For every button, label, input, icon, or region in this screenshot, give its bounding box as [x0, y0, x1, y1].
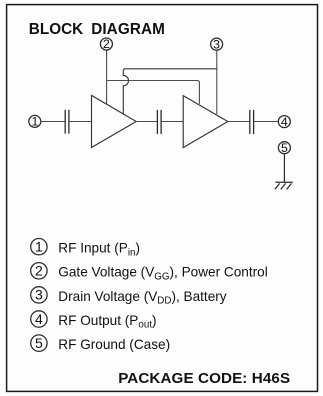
node 2 (gate voltage terminal) — [100, 38, 112, 50]
legend marker 3 — [31, 287, 47, 303]
svg-text:5: 5 — [281, 141, 288, 155]
wire node3 down to A2 drain — [216, 50, 218, 114]
capacitor C2 (interstage coupling) — [157, 110, 161, 134]
op-amp A2 (second stage amplifier) — [183, 96, 228, 148]
svg-text:RF Input (Pin): RF Input (Pin) — [58, 241, 140, 259]
svg-text:2: 2 — [103, 37, 110, 51]
legend marker 2 — [31, 263, 47, 279]
legend marker 1 — [31, 239, 47, 255]
svg-text:3: 3 — [213, 37, 220, 51]
capacitor C3 (output DC block) — [250, 110, 254, 134]
wire C1 to amp A1 — [69, 121, 92, 123]
svg-text:2: 2 — [35, 263, 43, 279]
wire node2 down to A1 gate — [106, 50, 108, 104]
svg-text:BLOCKDIAGRAM: BLOCKDIAGRAM — [29, 21, 165, 38]
svg-text:4: 4 — [35, 311, 43, 327]
legend marker 4 — [31, 311, 47, 327]
wire A2 to C3 — [228, 121, 250, 123]
svg-text:3: 3 — [35, 287, 43, 303]
svg-text:RF Ground (Case): RF Ground (Case) — [58, 337, 170, 352]
wire C2 to amp A2 — [161, 121, 183, 123]
node 3 (drain voltage terminal) — [211, 38, 223, 50]
node 4 (RF output terminal) — [278, 116, 290, 128]
wire node5 to ground — [283, 154, 285, 183]
op-amp A1 (first stage amplifier) — [92, 95, 137, 147]
wire node1 to C1 — [41, 121, 66, 123]
node 1 (RF input terminal) — [29, 115, 41, 127]
wire drain branch to A1 with hop over gate wire — [123, 69, 217, 114]
capacitor C1 (input DC block) — [65, 110, 69, 134]
svg-text:5: 5 — [35, 335, 43, 351]
wire C3 to node 4 — [254, 121, 278, 123]
wire A1 to C2 — [136, 121, 157, 123]
node 5 (RF ground terminal) — [278, 142, 290, 154]
ground symbol (case ground) — [275, 182, 293, 189]
svg-text:4: 4 — [281, 115, 288, 129]
wire gate branch to A2 — [107, 81, 200, 104]
svg-text:1: 1 — [31, 115, 38, 129]
svg-text:PACKAGE CODE: H46S: PACKAGE CODE: H46S — [118, 370, 290, 387]
svg-text:1: 1 — [35, 239, 43, 255]
svg-text:Drain Voltage (VDD), Battery: Drain Voltage (VDD), Battery — [58, 289, 227, 307]
legend marker 5 — [31, 335, 47, 351]
